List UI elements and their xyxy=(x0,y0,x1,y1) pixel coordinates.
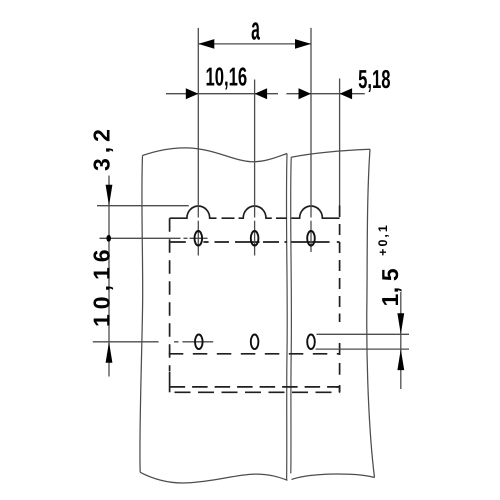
hole top row 1 xyxy=(195,231,203,246)
extension line col3 (x=311) xyxy=(310,28,312,252)
right dimension column line (x=400.8) xyxy=(400,292,402,389)
extension line 3,2 top (y=205.7) xyxy=(97,205,189,207)
centre line top row lead-in xyxy=(100,237,208,239)
arrow a left xyxy=(198,39,214,49)
hole bottom row 3 xyxy=(307,335,315,350)
extension line bottom row (y=341.8) xyxy=(93,341,213,343)
left dimension column line (x=109) xyxy=(108,176,110,377)
arrow 10,16 left column (pointing up) xyxy=(106,342,113,363)
dimension line a (y=43.9) xyxy=(198,43,311,45)
dashed footprint rectangle right edge xyxy=(339,206,341,393)
footprint top line dashes between bumps xyxy=(222,217,288,219)
part outline top edge right section xyxy=(291,149,370,157)
svg-text:5,18: 5,18 xyxy=(358,64,390,94)
svg-text:a: a xyxy=(251,10,260,46)
part outline right edge xyxy=(367,149,375,477)
dashed lower auxiliary line xyxy=(175,391,340,393)
extension line col2 (x=254.6) xyxy=(254,80,256,256)
right footprint corner connector xyxy=(336,387,340,393)
arrow 10,16 right (outside, pointing left) xyxy=(255,88,268,99)
break line left xyxy=(285,154,288,481)
part outline bottom edge left section xyxy=(140,472,287,483)
arrow 1,5 bottom (pointing up) xyxy=(397,349,404,370)
arrow 1,5 top (pointing down) xyxy=(397,313,404,334)
hole top row 3 xyxy=(307,231,315,246)
part outline top edge left section xyxy=(143,148,288,162)
dashed footprint bottom edge xyxy=(170,386,340,388)
dimension dot at top row centre xyxy=(106,235,111,242)
extension line footprint right (x=339.6) xyxy=(339,79,341,206)
svg-text:10,16: 10,16 xyxy=(205,62,247,92)
bump contour pin 3 xyxy=(291,206,339,218)
arrow 5,18 right (outside, pointing left) xyxy=(340,88,353,99)
part outline left edge xyxy=(140,156,143,473)
dashed line under top hole row xyxy=(171,241,340,243)
extension line slot top (y=334.3) xyxy=(317,333,410,335)
dimension line 10,16 top (y=93.7) xyxy=(166,93,278,95)
extension line slot bottom (y=349.1) xyxy=(316,348,410,350)
dashed line under bottom hole row xyxy=(169,353,340,355)
svg-text:1,5+0,1: 1,5+0,1 xyxy=(376,223,403,306)
bump contour pin 2 xyxy=(239,206,272,218)
hole bottom row 1 xyxy=(195,335,203,350)
part outline bottom edge right section xyxy=(292,474,375,479)
arrow 3,2 (pointing down) xyxy=(106,185,113,206)
break line right xyxy=(290,157,293,473)
dimension line 5,18 (y=93.7) xyxy=(286,93,364,95)
arrow 10,16 left (outside, pointing right) xyxy=(186,88,199,99)
footprint top line with pin bumps, solid segments xyxy=(170,206,217,218)
svg-text:10,16: 10,16 xyxy=(88,244,114,327)
extension line col1 (x=198.3) xyxy=(197,28,199,256)
arrow 5,18 left (outside, pointing right) xyxy=(299,88,312,99)
arrow a right xyxy=(295,39,311,49)
hole top row 2 xyxy=(251,231,259,246)
svg-text:3,2: 3,2 xyxy=(88,124,114,171)
hole bottom row 2 xyxy=(251,335,259,350)
dashed footprint rectangle left edge xyxy=(169,218,171,371)
